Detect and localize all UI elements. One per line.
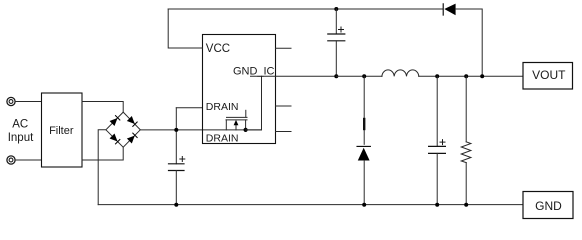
svg-text:GND: GND <box>535 199 562 213</box>
C3 plus sign <box>440 140 445 145</box>
MOSFET drain lead <box>225 120 227 130</box>
bridge diode DB4 (bottom-right edge) <box>127 133 138 144</box>
svg-text:Filter: Filter <box>49 125 74 137</box>
wire upper terminal to Filter <box>15 101 41 103</box>
svg-text:DRAIN: DRAIN <box>206 101 239 113</box>
GND box <box>523 192 573 219</box>
IC right stub pin 1 <box>276 47 292 49</box>
svg-text:AC: AC <box>12 119 28 131</box>
svg-text:VOUT: VOUT <box>532 68 566 82</box>
bridge rectifier BR1 diamond <box>106 112 140 147</box>
node dot top rail / C2 <box>334 7 338 11</box>
thick mark on D2 wire <box>363 119 365 129</box>
svg-text:VCC: VCC <box>206 43 230 55</box>
C2 plus sign <box>339 27 344 32</box>
node dot D1 branch <box>480 74 484 78</box>
resistor R1 <box>465 76 467 142</box>
VOUT box <box>523 63 573 90</box>
GND_IC wire from IC to mid rail <box>251 75 337 77</box>
wire Filter to bridge top vertex <box>82 102 123 113</box>
vertical wire DRAIN node to input cap <box>175 108 177 164</box>
bridge diode DB2 (top-right edge) <box>127 116 138 127</box>
wire VCC pin from top rail <box>168 9 202 48</box>
wire upper DRAIN pin <box>176 107 202 109</box>
IC right stub pin 2 <box>276 105 292 107</box>
freewheel diode D2 wire upper <box>363 76 365 144</box>
MOSFET gate bar <box>227 116 248 118</box>
filter box <box>42 93 83 167</box>
diode D2 (freewheel, cathode up) <box>357 146 370 160</box>
svg-text:Input: Input <box>8 132 34 144</box>
capacitor C3 (output, polarized) <box>436 76 438 146</box>
IC U1 box <box>203 35 276 144</box>
mid rail inductor to VOUT box <box>419 75 523 77</box>
wire bridge left vertex to bottom rail <box>98 130 106 205</box>
MOSFET Q internal: gate stub <box>245 110 247 117</box>
AC input terminal J1 (upper) <box>7 97 15 105</box>
bridge diode DB1 (top-left edge) <box>110 115 121 126</box>
wire lower terminal to Filter <box>15 159 41 161</box>
IC right stub pin 3 <box>276 131 292 133</box>
wire Filter to bridge bottom vertex <box>82 147 123 160</box>
mid rail to inductor <box>336 75 382 77</box>
wire source to GND_IC <box>246 76 262 130</box>
MOSFET body arrow <box>234 120 239 130</box>
top rail diode to corner, down to VOUT rail <box>456 9 483 76</box>
node dot R1 <box>464 74 468 78</box>
node dot DRAIN junction <box>174 128 178 132</box>
svg-text:DRAIN: DRAIN <box>206 132 239 144</box>
node dot input cap bottom <box>174 203 178 207</box>
MOSFET channel bar <box>226 119 247 121</box>
bottom rail (ground bus) <box>98 204 523 206</box>
svg-text:GND_IC: GND_IC <box>233 66 275 78</box>
node dot C3 bottom <box>435 203 439 207</box>
wire bridge right vertex to DRAIN pins and MOSFET <box>140 129 261 131</box>
C1 plus sign <box>180 157 185 162</box>
top rail to bias diode <box>168 8 443 10</box>
diode D1 (bias, pointing left) <box>443 4 455 16</box>
node dot GND_IC / C2 / rail <box>334 74 338 78</box>
node dot MOSFET source <box>244 128 248 132</box>
node dot C3 <box>435 74 439 78</box>
node dot freewheel diode <box>362 74 366 78</box>
capacitor C2 (VCC bypass, polarized) <box>335 9 337 34</box>
inductor L1 <box>382 70 419 76</box>
MOSFET source lead <box>245 120 247 130</box>
bridge diode DB3 (bottom-left edge) <box>110 134 121 145</box>
AC input terminal J2 (lower) <box>7 156 15 164</box>
capacitor C1 (input bulk, polarized) <box>169 164 185 171</box>
node dot D2 bottom <box>362 203 366 207</box>
node dot R1 bottom <box>464 203 468 207</box>
